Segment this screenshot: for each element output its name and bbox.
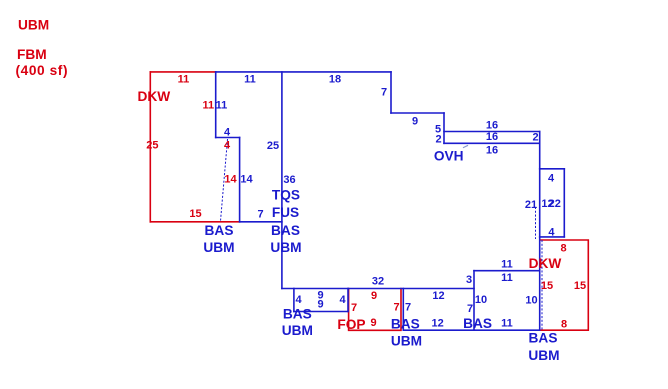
wire: small 4x12 rect right 12 <box>563 169 565 237</box>
wire: top edge 11+18 <box>216 71 391 73</box>
svg-text:7: 7 <box>257 208 263 220</box>
wire: OVH top 16 <box>444 131 540 133</box>
svg-text:DKW: DKW <box>138 89 171 104</box>
svg-text:14: 14 <box>224 174 237 186</box>
svg-text:10: 10 <box>525 295 537 307</box>
svg-text:UBM: UBM <box>282 323 313 338</box>
svg-text:25: 25 <box>146 140 158 152</box>
svg-text:11: 11 <box>178 74 190 86</box>
svg-text:UBM: UBM <box>270 240 301 255</box>
svg-text:9: 9 <box>412 116 418 128</box>
svg-text:7: 7 <box>394 302 400 314</box>
svg-text:18: 18 <box>329 73 341 85</box>
svg-text:7: 7 <box>351 302 357 314</box>
svg-text:16: 16 <box>486 120 498 132</box>
node: DKW dotted diagonal (14) <box>221 140 228 222</box>
dimension labels blue <box>216 73 561 329</box>
dimension labels red <box>146 74 586 331</box>
svg-text:11: 11 <box>501 258 513 270</box>
svg-text:BAS: BAS <box>463 316 492 331</box>
svg-text:9: 9 <box>370 317 376 329</box>
wire: vertical 7 at FOP right <box>402 289 404 331</box>
wire: step right 9 <box>391 112 444 114</box>
svg-text:(400 sf): (400 sf) <box>16 63 68 78</box>
svg-text:11: 11 <box>501 317 513 329</box>
svg-text:15: 15 <box>574 280 586 292</box>
svg-text:15: 15 <box>189 208 201 220</box>
wire: left inner vertical 11 <box>215 72 217 138</box>
svg-text:7: 7 <box>405 301 411 313</box>
svg-text:36: 36 <box>283 174 295 186</box>
svg-text:UBM: UBM <box>203 240 234 255</box>
wire: DKW top edge <box>150 71 215 73</box>
svg-text:OVH: OVH <box>434 149 464 164</box>
wire: vertical 14 <box>239 138 241 222</box>
wire: 11x10 room top 11 <box>474 270 540 272</box>
wire: DKW bottom edge <box>150 221 239 223</box>
svg-text:9: 9 <box>371 290 377 302</box>
node: stray tick near OVH <box>464 146 468 148</box>
svg-text:16: 16 <box>486 131 498 143</box>
svg-text:BAS: BAS <box>271 223 300 238</box>
wire: right main vertical 21/10 <box>539 132 541 331</box>
svg-text:2: 2 <box>435 134 441 146</box>
svg-text:14: 14 <box>240 174 253 186</box>
svg-text:7: 7 <box>467 303 473 315</box>
svg-text:11: 11 <box>202 100 214 112</box>
svg-text:8: 8 <box>561 318 567 330</box>
svg-text:DKW: DKW <box>529 256 562 271</box>
svg-text:3: 3 <box>466 274 472 286</box>
svg-text:4: 4 <box>548 172 555 184</box>
svg-text:12: 12 <box>431 318 443 330</box>
wire: small 4x12 rect top <box>540 168 565 170</box>
DKW deck rectangle (red, right side) <box>541 240 589 330</box>
svg-text:21: 21 <box>525 199 537 211</box>
svg-text:25: 25 <box>267 140 279 152</box>
svg-text:BAS: BAS <box>205 223 234 238</box>
svg-text:22: 22 <box>549 198 561 210</box>
wire: small 4x12 rect bottom <box>540 236 565 238</box>
svg-text:12: 12 <box>432 290 444 302</box>
wire: long horizontal 32 <box>282 288 474 290</box>
svg-text:8: 8 <box>561 242 567 254</box>
svg-text:TQS: TQS <box>272 187 300 202</box>
svg-text:10: 10 <box>475 294 487 306</box>
wire: 4x9 bump bottom <box>294 311 348 313</box>
wire: 4x9 bump left <box>293 289 295 312</box>
wire: jog 4 <box>216 137 240 139</box>
svg-text:FOP: FOP <box>337 317 365 332</box>
svg-text:11: 11 <box>244 74 256 86</box>
wire: DKW left edge <box>149 72 151 222</box>
svg-text:UBM: UBM <box>18 18 49 33</box>
svg-text:4: 4 <box>339 294 346 306</box>
svg-text:UBM: UBM <box>391 334 422 349</box>
svg-text:UBM: UBM <box>528 348 559 363</box>
svg-text:BAS: BAS <box>529 331 558 346</box>
svg-text:11: 11 <box>216 100 228 112</box>
wire: step down 5 <box>443 113 445 143</box>
wire: 11x10 room left 3+7 <box>473 271 475 331</box>
svg-text:FUS: FUS <box>272 205 299 220</box>
svg-text:4: 4 <box>548 227 555 239</box>
svg-text:4: 4 <box>224 126 231 138</box>
wire: right step down 7 <box>390 72 392 113</box>
svg-text:11: 11 <box>501 272 513 284</box>
svg-text:7: 7 <box>381 87 387 99</box>
svg-text:2: 2 <box>533 132 539 144</box>
wire: 4x9 bump right <box>347 289 349 312</box>
svg-text:4: 4 <box>295 294 302 306</box>
svg-text:9: 9 <box>317 299 323 311</box>
FOP porch rectangle (red, bottom-center) <box>349 289 401 331</box>
DKW deck polygon (red, upper-left) <box>150 72 239 222</box>
wire: main left vertical 36 <box>281 72 283 289</box>
wire: bottom 7 <box>240 221 282 223</box>
svg-text:FBM: FBM <box>17 47 47 62</box>
main blue outline <box>216 72 565 330</box>
wire: OVH bottom 16 <box>444 142 540 144</box>
svg-text:BAS: BAS <box>283 306 312 321</box>
wire: bottom edge 12+11 <box>403 329 539 331</box>
svg-text:32: 32 <box>372 276 384 288</box>
svg-text:BAS: BAS <box>391 317 420 332</box>
svg-text:15: 15 <box>541 280 553 292</box>
node: dotted vertical left of 21 <box>535 207 537 238</box>
svg-text:16: 16 <box>486 145 498 157</box>
svg-text:4: 4 <box>224 139 231 151</box>
node: dotted vertical along DKW left edge <box>541 241 543 331</box>
